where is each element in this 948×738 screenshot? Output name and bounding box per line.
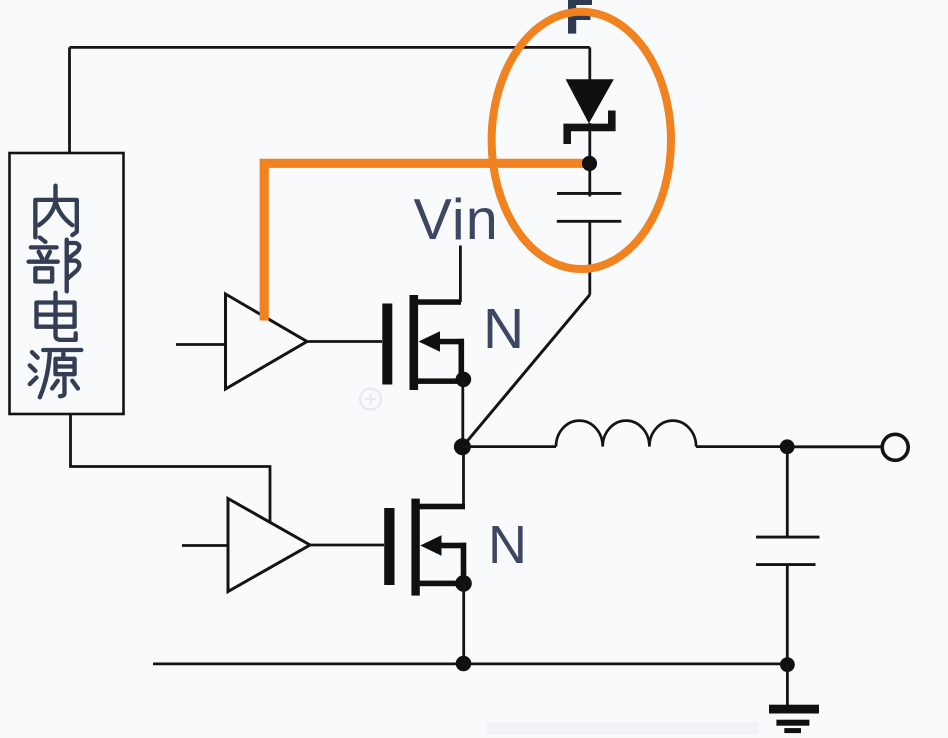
- hanzi 内: [35, 186, 76, 238]
- transistor Q1 high-side NMOS: [382, 295, 464, 390]
- junction dot Q2 source: [455, 575, 472, 592]
- svg-text:Vin: Vin: [414, 188, 499, 252]
- wire Q2 drain up to switch node: [462, 447, 465, 504]
- svg-text:N: N: [483, 297, 524, 361]
- annotation orange ellipse: [492, 12, 671, 269]
- wire boot node to capacitor C1: [588, 164, 591, 197]
- wire C1 bottom down: [588, 221, 591, 294]
- label cropped F top edge: [568, 0, 592, 34]
- node SW switch node dot: [454, 438, 471, 455]
- box internal supply 内部电源: [10, 153, 124, 414]
- watermark band bottom: [487, 722, 759, 735]
- junction dot Q1 source: [456, 372, 472, 388]
- wire box-bottom to lower buffer: [71, 414, 271, 523]
- wire diode cathode to boot node: [588, 123, 591, 157]
- wire switch node to inductor: [462, 445, 556, 448]
- hanzi 电: [36, 293, 75, 340]
- buffer U2 bottom gate driver: [228, 499, 310, 592]
- transistor Q2 low-side NMOS: [384, 499, 466, 596]
- diode D1 bootstrap zener: [566, 79, 614, 123]
- junction dot Q2 source on rail: [456, 656, 472, 672]
- wire output node to capacitor C2: [786, 447, 789, 537]
- terminal Vout open circle: [882, 434, 908, 460]
- wire bottom rail: [153, 663, 787, 666]
- junction dot ground node: [780, 657, 795, 672]
- wire U1 output to Q1 gate: [307, 340, 382, 343]
- hanzi 部: [29, 238, 80, 292]
- wire inductor to output node: [696, 445, 787, 448]
- svg-text:N: N: [488, 515, 527, 575]
- wire Q2 source down to bottom rail: [462, 583, 465, 663]
- wire U2 input stub: [182, 544, 228, 547]
- capacitor C1 bootstrap: [557, 192, 621, 195]
- wire diagonal C1 to switch node: [462, 295, 589, 447]
- inductor L1: [556, 421, 696, 447]
- wire Q1 source to switch node: [461, 380, 464, 447]
- wire U2 output to Q2 gate: [310, 544, 384, 547]
- watermark plus circle: [360, 389, 381, 410]
- wire box-top to top rail: [68, 47, 71, 153]
- capacitor C2 output: [756, 536, 820, 539]
- hanzi 源: [30, 350, 82, 397]
- wire Vin to Q1 drain: [459, 246, 462, 303]
- wire ground node to ground: [786, 665, 789, 705]
- wire U1 input stub: [176, 343, 226, 346]
- ground: [769, 705, 819, 733]
- wire orange gate-boost: [264, 163, 589, 320]
- junction dot boot node: [582, 156, 597, 171]
- wire top rail down to diode: [588, 47, 591, 81]
- wire top rail: [70, 46, 590, 49]
- buffer U1 top gate driver: [226, 294, 308, 389]
- wire output node to terminal: [794, 445, 882, 448]
- wire C2 bottom to ground node: [786, 565, 789, 665]
- junction dot output node: [780, 439, 795, 454]
